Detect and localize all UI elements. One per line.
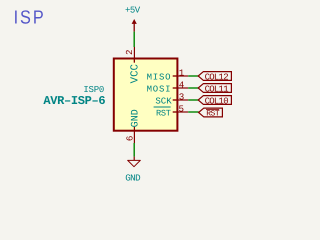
power +5V [125, 6, 141, 32]
global label COL11 [198, 84, 231, 95]
wire MOSI [188, 87, 198, 89]
svg-text:GND: GND [130, 109, 141, 127]
svg-text:COL10: COL10 [205, 96, 229, 106]
svg-text:5: 5 [179, 104, 185, 115]
global label COL10 [198, 96, 231, 107]
text label ISP [14, 6, 46, 27]
pin stubs inside body (MISO/MOSI/SCK/RST) [173, 76, 177, 112]
pin 6 GND [124, 109, 141, 143]
wire SCK [188, 99, 198, 101]
svg-text:MOSI: MOSI [147, 84, 172, 94]
wire MISO [188, 75, 198, 77]
value AVR-ISP-6 [43, 94, 105, 108]
wire RST [188, 111, 199, 113]
connector ISP0 body [114, 59, 178, 131]
wire GND [133, 143, 135, 157]
svg-text:2: 2 [124, 49, 135, 55]
global label COL12 [198, 72, 231, 83]
svg-text:4: 4 [179, 80, 185, 91]
svg-text:1: 1 [179, 68, 185, 79]
pin 2 inner stub [133, 60, 135, 63]
svg-text:AVR–ISP–6: AVR–ISP–6 [43, 94, 105, 108]
wire VCC [133, 32, 135, 47]
pin 4 MOSI [147, 80, 189, 95]
pin 2 VCC [124, 47, 141, 83]
svg-text:GND: GND [125, 172, 141, 183]
svg-text:6: 6 [124, 136, 135, 142]
svg-text:ISP: ISP [14, 6, 46, 27]
svg-text:MISO: MISO [147, 72, 172, 82]
global label RST [199, 108, 223, 119]
pin 1 MISO [147, 68, 189, 83]
ground [125, 157, 141, 184]
svg-text:COL12: COL12 [205, 72, 229, 82]
svg-text:3: 3 [179, 92, 185, 103]
svg-text:RST: RST [206, 110, 220, 119]
svg-text:COL11: COL11 [205, 84, 229, 94]
svg-text:SCK: SCK [155, 96, 172, 106]
pin 5 RST [154, 104, 189, 119]
pin 3 SCK [155, 92, 188, 107]
svg-text:+5V: +5V [125, 6, 141, 16]
svg-text:VCC: VCC [129, 63, 141, 83]
svg-text:RST: RST [156, 108, 171, 118]
reference ISP0 [83, 85, 104, 95]
